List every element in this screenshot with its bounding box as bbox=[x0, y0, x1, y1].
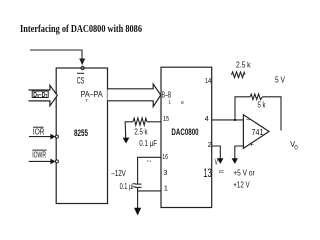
svg-text:8255: 8255 bbox=[74, 128, 88, 139]
svg-text:2: 2 bbox=[208, 140, 212, 149]
svg-text:3: 3 bbox=[163, 168, 167, 177]
+5V/+12V down arrow bbox=[232, 158, 238, 164]
resistor 5k feedback bbox=[250, 94, 262, 100]
svg-text:0.1 µF: 0.1 µF bbox=[139, 139, 157, 148]
wire: capacitor to pin 1 bbox=[138, 187, 161, 191]
capacitor 0.1uF plates bbox=[135, 184, 142, 187]
resistor 2.5k on pin 15 bbox=[133, 118, 147, 125]
wire: feedback up and across bbox=[235, 97, 250, 120]
svg-text:+5 V or: +5 V or bbox=[233, 168, 255, 178]
svg-text:1: 1 bbox=[164, 183, 168, 192]
svg-text:IOR: IOR bbox=[33, 128, 45, 137]
IOR label with overline bbox=[33, 127, 45, 136]
svg-text:D0–D7: D0–D7 bbox=[33, 92, 47, 100]
svg-text:–12V: –12V bbox=[111, 168, 126, 178]
svg-text:7: 7 bbox=[85, 98, 88, 104]
wire: pin 16 compensation bbox=[138, 157, 161, 184]
wire: op-amp + input to supply arrow bbox=[235, 146, 244, 159]
svg-text:−: − bbox=[246, 117, 250, 124]
svg-text:2.5 k: 2.5 k bbox=[134, 126, 148, 136]
svg-text:2.5 k: 2.5 k bbox=[236, 61, 251, 70]
port A bus block arrow from 8255 to DAC0800 bbox=[108, 84, 161, 107]
junction dot at feedback node bbox=[234, 119, 236, 121]
IOR wire with arrowhead bbox=[29, 134, 56, 140]
resistor 2.5k floating near pin 14 bbox=[232, 72, 246, 78]
svg-text:5 k: 5 k bbox=[258, 101, 267, 110]
Vo output label bbox=[290, 139, 298, 151]
svg-text:DAC0800: DAC0800 bbox=[171, 127, 198, 138]
CS pin circle on 8255 top edge bbox=[81, 66, 84, 69]
arrowhead into CS pin bbox=[79, 59, 85, 66]
PA0-PA7 port label bbox=[81, 89, 103, 104]
IOWR label with overline bbox=[32, 150, 46, 159]
svg-text:14: 14 bbox=[205, 76, 212, 85]
wire: resistor to ground corner bbox=[125, 122, 133, 138]
svg-text:PA–PA: PA–PA bbox=[81, 89, 103, 99]
svg-text:5 V: 5 V bbox=[275, 76, 286, 85]
8255 box bbox=[56, 68, 107, 204]
wire: pin 15 to 2.5k resistor bbox=[147, 121, 161, 123]
svg-text:8: 8 bbox=[181, 100, 184, 106]
IOWR pin circle bbox=[55, 160, 58, 163]
D0-D7 label box bbox=[32, 91, 48, 100]
DAC0800 box bbox=[161, 67, 212, 207]
noise dots bbox=[147, 160, 151, 162]
svg-text:V: V bbox=[215, 157, 219, 166]
svg-text:741: 741 bbox=[252, 127, 264, 137]
ground arrow below 2.5k bbox=[123, 138, 130, 144]
svg-text:13: 13 bbox=[203, 166, 212, 180]
svg-text:15: 15 bbox=[163, 114, 169, 123]
B1-B8 input label bbox=[162, 89, 184, 106]
wire: CS select line from address decoder to 8255 CS pin bbox=[30, 50, 82, 59]
IOR pin circle bbox=[55, 135, 58, 138]
svg-text:0.1 µF: 0.1 µF bbox=[120, 182, 136, 191]
svg-text:B–B: B–B bbox=[162, 89, 172, 99]
op-amp 741 triangle bbox=[243, 115, 269, 149]
svg-text:IOWR: IOWR bbox=[32, 151, 46, 160]
CS pin label bbox=[77, 73, 85, 85]
svg-text:1: 1 bbox=[168, 100, 171, 106]
data bus block arrow D0-D7 into 8255 bbox=[29, 85, 58, 106]
svg-text:4: 4 bbox=[205, 114, 209, 123]
svg-text:cc: cc bbox=[219, 169, 224, 175]
ground arrow below DAC bbox=[134, 208, 141, 216]
wire: feedback to output node bbox=[263, 97, 282, 131]
svg-text:+: + bbox=[250, 141, 254, 148]
svg-text:16: 16 bbox=[162, 152, 168, 161]
svg-text:Interfacing of DAC0800 with 80: Interfacing of DAC0800 with 8086 bbox=[20, 24, 142, 35]
IOWR wire with arrowhead bbox=[29, 159, 56, 165]
svg-text:CS: CS bbox=[77, 76, 85, 86]
wire: pin 4 to op-amp inverting input bbox=[212, 119, 244, 121]
svg-text:+12 V: +12 V bbox=[233, 179, 250, 189]
Vcc down arrow (pin 2) bbox=[217, 158, 223, 164]
wire: down to ground below DAC bbox=[137, 191, 139, 208]
wire: pin 2 to Vcc arrow bbox=[212, 146, 221, 159]
